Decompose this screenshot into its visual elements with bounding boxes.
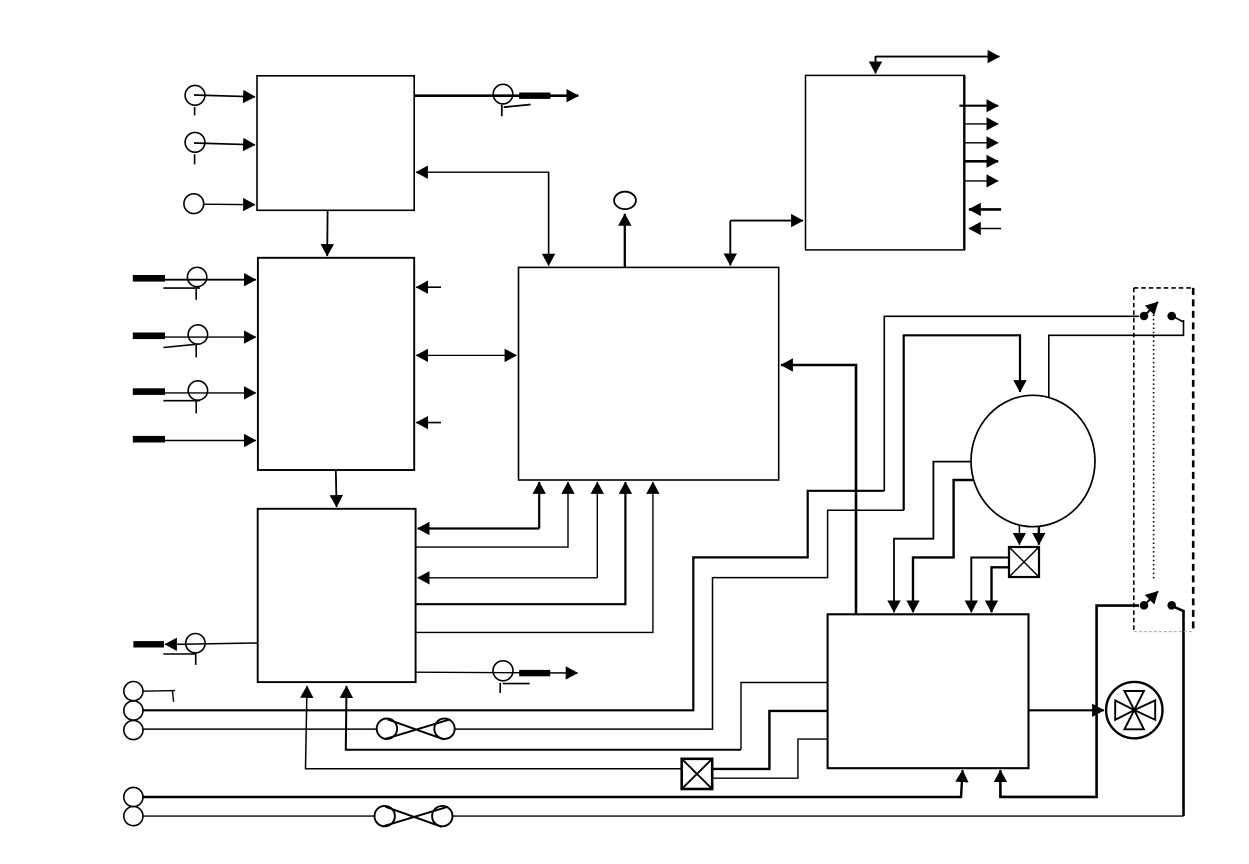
block B2 middle-left <box>258 258 414 470</box>
valve bowtie V1 <box>377 719 455 740</box>
sensor circle B2 input 1 <box>163 267 206 300</box>
wire B1 output right <box>414 94 578 97</box>
wire TR output 1 <box>959 105 998 107</box>
wire B1 input 3 <box>203 203 255 206</box>
signal bar B1 output <box>519 93 550 99</box>
sensor circle E2 <box>124 701 143 720</box>
wire B2 right stub input 1 <box>416 286 441 288</box>
node corner to top-right block <box>730 221 803 266</box>
sensor circle E4 <box>124 787 143 806</box>
wire L2 B3 output to C <box>416 482 568 547</box>
sensor circle E1 bottom-left <box>124 682 175 702</box>
wire B3 right output to arrow <box>416 671 578 674</box>
wire TR output 2 <box>964 123 998 125</box>
wire long line E4 to bottom box <box>142 770 962 797</box>
wire pump bottom to valve X1 right arrow <box>1038 526 1040 545</box>
wire switch right leg down to E5 line <box>1175 607 1184 816</box>
wire B1 right-edge input from node below <box>416 172 549 265</box>
wire pump bottom to valve X1 left arrow <box>1018 525 1020 545</box>
wire TR top node <box>876 56 1000 73</box>
sensor circle B1 output <box>493 84 530 116</box>
wire B2 right stub input 2 <box>416 422 441 424</box>
wire L4 B3 output to C <box>416 482 626 604</box>
wire X2 right thick to BB <box>712 711 827 769</box>
wire X1 output 2 to bottom box <box>992 567 1010 612</box>
signal bar B3 right output <box>519 670 550 676</box>
wire X2 right thin to BB <box>712 739 827 778</box>
wire TR output 4 <box>964 160 998 163</box>
wire switch staircase from E2 to top switch <box>143 316 1139 710</box>
wire B2 input 2 <box>165 336 256 338</box>
sensor circle B2 input 2 <box>163 325 207 358</box>
wire L5 B3 output to C <box>416 482 653 632</box>
wire B3 bottom riser 1 from long line <box>306 686 682 769</box>
wire B2 input 1 <box>165 279 256 281</box>
switch SW1 top <box>1140 302 1176 320</box>
signal bar B2 input 4 <box>133 436 165 443</box>
wire B2 input 4 <box>165 440 256 442</box>
center block C <box>519 267 779 480</box>
block BB bottom-right <box>828 614 1029 768</box>
block B3 bottom-left <box>258 509 416 682</box>
sensor circle B1 input 2 <box>185 132 205 164</box>
switch SW2 bottom <box>1140 591 1176 609</box>
wire pump left staircase E1a to bottom box <box>894 462 972 613</box>
wire B1 input 2 <box>194 143 255 145</box>
block TR top-right <box>806 75 965 250</box>
wire ellipse staircase from E3 to pump top <box>143 335 1020 729</box>
wire B3 bottom riser 2 from cross line <box>346 683 828 750</box>
wire TR input 2 <box>969 228 1001 230</box>
dotted link between switches <box>1153 306 1155 581</box>
sensor circle E5 <box>124 807 143 826</box>
wire B2 input 3 <box>165 392 256 394</box>
wire B1 to B2 <box>326 210 328 256</box>
wire C top output to indicator <box>624 214 626 268</box>
wire X1 output 1 to bottom box <box>971 558 1009 613</box>
wire B3 left output <box>165 643 258 644</box>
indicator ellipse above C <box>614 192 636 209</box>
wire TR output 3 <box>964 142 998 144</box>
signal bar B2 input 3 <box>133 388 165 395</box>
dashed boundary box <box>1134 288 1193 632</box>
pump ellipse P <box>971 395 1095 526</box>
valve X1 crossed box <box>1009 547 1039 577</box>
wire L1 C-bottom / B3 input <box>418 482 540 529</box>
wire bottom loop from switch to BB bottom <box>1000 606 1139 797</box>
signal bar B3 left output <box>133 641 164 647</box>
sensor circle B1 input 1 <box>185 85 205 115</box>
valve X2 crossed box <box>682 759 713 789</box>
sensor circle B2 input 3 <box>163 381 207 414</box>
wire BB output to fan <box>1029 709 1105 711</box>
wire pump top right to switch <box>1049 318 1184 398</box>
block B1 top-left <box>257 76 414 211</box>
wire B1 input 1 <box>194 95 255 97</box>
wire B2 to B3 <box>335 470 338 507</box>
sensor circle B3 right output <box>493 661 530 693</box>
valve bowtie V2 <box>375 806 453 827</box>
wire pump left staircase E2a to bottom box <box>913 480 974 612</box>
sensor circle B3 left output <box>163 634 205 665</box>
sensor circle B1 input 3 <box>184 194 204 214</box>
wire BB output up to center block <box>781 365 856 614</box>
wire TR input 1 <box>969 208 1001 211</box>
signal bar B2 input 2 <box>133 333 165 340</box>
fan F <box>1106 682 1162 738</box>
wire TR output 5 <box>964 180 998 182</box>
signal bar B2 input 1 <box>133 275 165 282</box>
wire long line E5 to switch right leg <box>143 815 1184 817</box>
wire B2 to center box bidirectional <box>416 354 516 356</box>
sensor circle E3 <box>124 720 143 739</box>
wire L3 C-bottom / B3 input <box>418 482 598 578</box>
